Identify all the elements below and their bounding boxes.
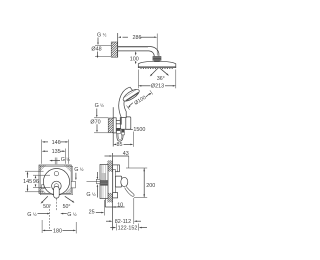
svg-text:122-152: 122-152 <box>118 225 138 231</box>
svg-text:50°: 50° <box>43 204 51 210</box>
svg-text:43: 43 <box>123 151 129 157</box>
svg-text:200: 200 <box>146 183 155 189</box>
svg-text:180: 180 <box>53 228 62 234</box>
svg-text:100: 100 <box>130 57 139 63</box>
svg-text:Ø70: Ø70 <box>90 119 100 125</box>
svg-text:Ø213: Ø213 <box>151 84 164 90</box>
svg-text:G ½: G ½ <box>67 212 77 218</box>
svg-text:10: 10 <box>117 202 123 208</box>
svg-text:96: 96 <box>33 179 39 185</box>
svg-text:286: 286 <box>133 35 142 41</box>
svg-text:82-112: 82-112 <box>115 219 131 225</box>
svg-text:25: 25 <box>89 209 95 215</box>
svg-text:145: 145 <box>23 179 32 185</box>
svg-text:85: 85 <box>117 142 123 148</box>
svg-text:G ½: G ½ <box>97 32 107 38</box>
svg-text:G ½: G ½ <box>74 167 84 173</box>
svg-text:G ½: G ½ <box>86 192 96 198</box>
svg-text:1500: 1500 <box>133 127 145 133</box>
svg-text:G ½: G ½ <box>27 212 37 218</box>
svg-text:G ½: G ½ <box>95 103 105 109</box>
svg-text:135: 135 <box>52 149 61 155</box>
svg-text:G ½: G ½ <box>61 157 71 163</box>
svg-text:36°: 36° <box>157 76 165 82</box>
svg-text:50°: 50° <box>63 204 71 210</box>
svg-text:Ø48: Ø48 <box>91 46 101 52</box>
svg-text:146: 146 <box>52 140 61 146</box>
